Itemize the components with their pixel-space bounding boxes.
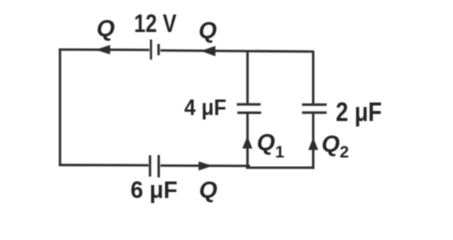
svg-text:4 μF: 4 μF	[184, 95, 226, 120]
wire middle branch lower	[246, 114, 248, 168]
arrow Q left on top wire	[95, 45, 110, 54]
arrow Q right on top wire	[201, 46, 216, 56]
svg-text:6 μF: 6 μF	[131, 177, 178, 204]
capacitor C2 2 uF	[302, 105, 327, 113]
wire middle branch upper	[246, 51, 248, 104]
wire left vertical	[59, 49, 61, 166]
battery B1	[151, 40, 159, 60]
capacitor C1 4 uF	[237, 104, 261, 112]
svg-text:2 μF: 2 μF	[336, 97, 382, 127]
wire top left segment	[59, 48, 150, 51]
arrow Q2 up	[308, 138, 318, 151]
wire right vertical lower	[312, 114, 314, 169]
wire top right segment	[160, 50, 314, 51]
svg-text:Q: Q	[199, 177, 217, 203]
wire bottom right segment	[246, 166, 314, 168]
arrow Q on bottom wire	[199, 161, 213, 170]
svg-text:12 V: 12 V	[134, 10, 177, 38]
arrow Q1 up	[242, 136, 252, 148]
wire right vertical upper	[312, 52, 314, 104]
wire bottom middle segment	[160, 164, 250, 167]
svg-text:Q2: Q2	[322, 131, 349, 162]
svg-text:Q: Q	[199, 17, 217, 43]
svg-text:Q: Q	[97, 15, 115, 41]
wire bottom left segment	[59, 164, 149, 167]
capacitor C3 6 uF	[150, 155, 159, 177]
svg-text:Q1: Q1	[257, 129, 284, 162]
